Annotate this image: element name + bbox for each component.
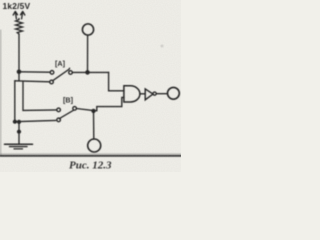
caption Fig 12.3 <box>69 160 112 172</box>
wire B top throw riser <box>23 81 57 110</box>
probe X3 indicator <box>168 87 180 99</box>
switch B lever <box>59 110 73 118</box>
wire probe2 drop <box>93 111 95 139</box>
junction dot probe2 tap <box>91 109 95 113</box>
ground bar 2 <box>10 146 28 148</box>
label key A <box>55 59 65 68</box>
scan artifact dot <box>161 45 164 48</box>
node dot A-net <box>17 70 22 75</box>
paper texture <box>0 0 1 1</box>
switch A top-left terminal <box>50 71 54 75</box>
junction dot probe1 tap <box>85 70 90 75</box>
switch A common terminal <box>69 71 73 75</box>
inverter bubble <box>153 92 156 95</box>
probe X1 indicator <box>82 24 93 35</box>
figure bottom rule <box>0 155 181 157</box>
switch B top-left terminal <box>57 108 61 112</box>
label R1 value 1k2/5V <box>3 1 31 11</box>
probe X2 indicator <box>88 139 101 152</box>
ground bar 3 <box>14 148 23 150</box>
wire probe1 drop <box>87 35 89 72</box>
wire ground stem <box>18 122 20 143</box>
wire gate output <box>140 93 145 95</box>
wire inverter to probe3 <box>156 93 167 95</box>
ground branch vertical <box>14 81 16 122</box>
paper background <box>0 0 181 172</box>
wire switch B to junction <box>77 109 94 111</box>
switch A bottom-left terminal <box>50 80 54 84</box>
wire resistor to node <box>18 34 20 81</box>
wire switch A to junction <box>72 71 108 73</box>
wire corner to gate input 1 <box>109 72 124 91</box>
wire node to switch A top throw <box>19 71 50 73</box>
wire ground to switch B bottom throw <box>15 120 56 121</box>
junction dot ground stem <box>17 120 21 124</box>
switch B bottom-left terminal <box>57 118 61 122</box>
supply arrow symbol <box>13 11 17 18</box>
junction dot on stem <box>17 130 21 134</box>
switch B common terminal <box>73 107 77 111</box>
wire B net to gate input 2 <box>94 97 125 110</box>
label key B <box>63 96 73 105</box>
switch A lever <box>53 68 70 81</box>
inverter U2 triangle <box>145 89 153 100</box>
resistor R1 1k2 <box>16 19 23 35</box>
AND gate U1 <box>124 86 140 102</box>
ground bar 1 <box>5 143 33 145</box>
left page border <box>0 30 2 155</box>
wire A bottom throw <box>15 81 50 82</box>
node dot ground wire <box>13 120 17 124</box>
